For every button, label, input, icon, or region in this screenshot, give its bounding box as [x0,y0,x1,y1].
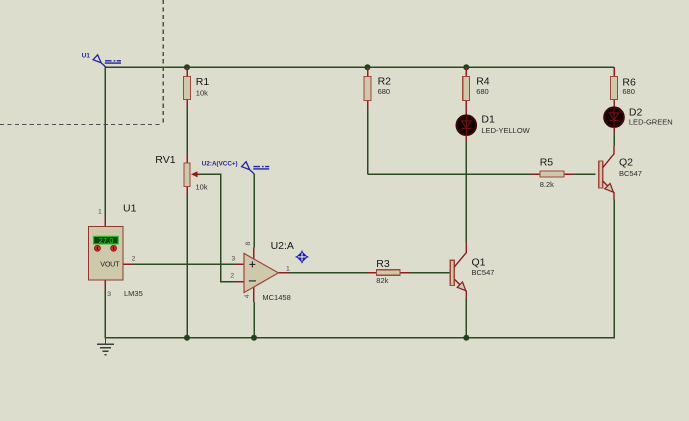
wire VCC top rail [105,66,614,68]
wire op-amp pin 4 to ground rail [253,302,255,338]
wire U1 terminal to LM35 pin 1 [104,67,106,216]
resistor R1 [184,67,210,109]
svg-text:R5: R5 [540,156,554,168]
wire D2 cathode to Q2 collector [613,134,615,146]
svg-text:4: 4 [244,294,251,298]
svg-text:RV1: RV1 [155,154,175,166]
node junction RV1 ground [184,335,190,341]
wire D1 cathode to Q1 collector [465,142,467,243]
wire LM35 VOUT to op-amp pin 3 [133,263,236,265]
wire Q1 emitter to ground rail [465,299,467,338]
resistor R4 [463,67,490,115]
svg-text:U1: U1 [123,203,137,215]
potentiometer RV1 [155,154,208,196]
wire R2 down [367,110,369,174]
transistor Q2 BC547 [599,146,642,200]
svg-text:1: 1 [286,266,290,273]
wire R5 to Q2 base [573,173,596,175]
wire R1 to RV1 [186,108,188,154]
svg-text:82k: 82k [376,276,388,285]
svg-text:10k: 10k [196,182,208,191]
svg-text:3: 3 [107,291,111,298]
svg-text:LED-YELLOW: LED-YELLOW [481,126,530,135]
svg-text:U1: U1 [82,52,91,59]
svg-text:R4: R4 [476,76,490,88]
origin marker (blue diamond) [295,250,309,264]
wire RV1 wiper to op-amp pin 2 [200,174,236,281]
wire R2 to R5 mid rail [368,173,532,175]
svg-text:3: 3 [232,256,236,263]
LED D1 (yellow) [457,113,531,141]
svg-text:VOUT: VOUT [100,260,120,269]
wire R3 to Q1 base [410,272,451,274]
ground [97,338,114,355]
LED D2 (green) [604,106,672,134]
wire VCC+ terminal to op-amp pin 8 [253,174,255,248]
svg-text:U2:A: U2:A [271,240,294,252]
node junction op-amp pin4 ground [251,335,257,341]
wire ground rail [105,200,614,338]
svg-text:LM35: LM35 [124,289,143,298]
resistor R2 [364,67,391,110]
svg-text:680: 680 [378,87,391,96]
svg-text:BC547: BC547 [472,268,495,277]
svg-text:2: 2 [132,256,136,263]
resistor R3 [367,258,409,285]
svg-text:R2: R2 [378,76,392,88]
svg-text:Q2: Q2 [619,157,633,169]
power terminal U2:A(VCC+) [202,160,269,174]
svg-text:10k: 10k [196,89,208,98]
svg-text:BC547: BC547 [619,169,642,178]
op-amp U2:A MC1458 [230,240,294,302]
resistor R6 [611,67,636,107]
svg-text:R1: R1 [196,76,210,88]
svg-text:680: 680 [622,87,635,96]
svg-text:680: 680 [476,87,489,96]
wire RV1 bottom to ground rail [186,196,188,338]
node junction Q1 emitter ground [463,335,469,341]
power terminal U1 (top-left) [82,52,121,67]
resistor R5 [532,156,573,189]
svg-text:U2:A(VCC+): U2:A(VCC+) [202,160,238,167]
node junction R4 top [463,64,469,70]
svg-text:D1: D1 [481,113,495,125]
svg-text:2: 2 [230,273,234,280]
svg-text:LED-GREEN: LED-GREEN [629,117,673,126]
node junction R2 top [365,64,371,70]
svg-text:8: 8 [245,242,252,246]
svg-text:27.0: 27.0 [99,236,114,245]
svg-text:1: 1 [98,209,102,216]
svg-text:MC1458: MC1458 [262,293,290,302]
temperature sensor U1 LM35 [89,203,143,299]
svg-text:8.2k: 8.2k [540,180,554,189]
svg-text:R3: R3 [376,258,390,270]
node junction R1 top [184,64,190,70]
wire op-amp output to R3 [289,272,367,274]
transistor Q1 BC547 [450,243,494,299]
svg-text:Q1: Q1 [472,257,486,269]
